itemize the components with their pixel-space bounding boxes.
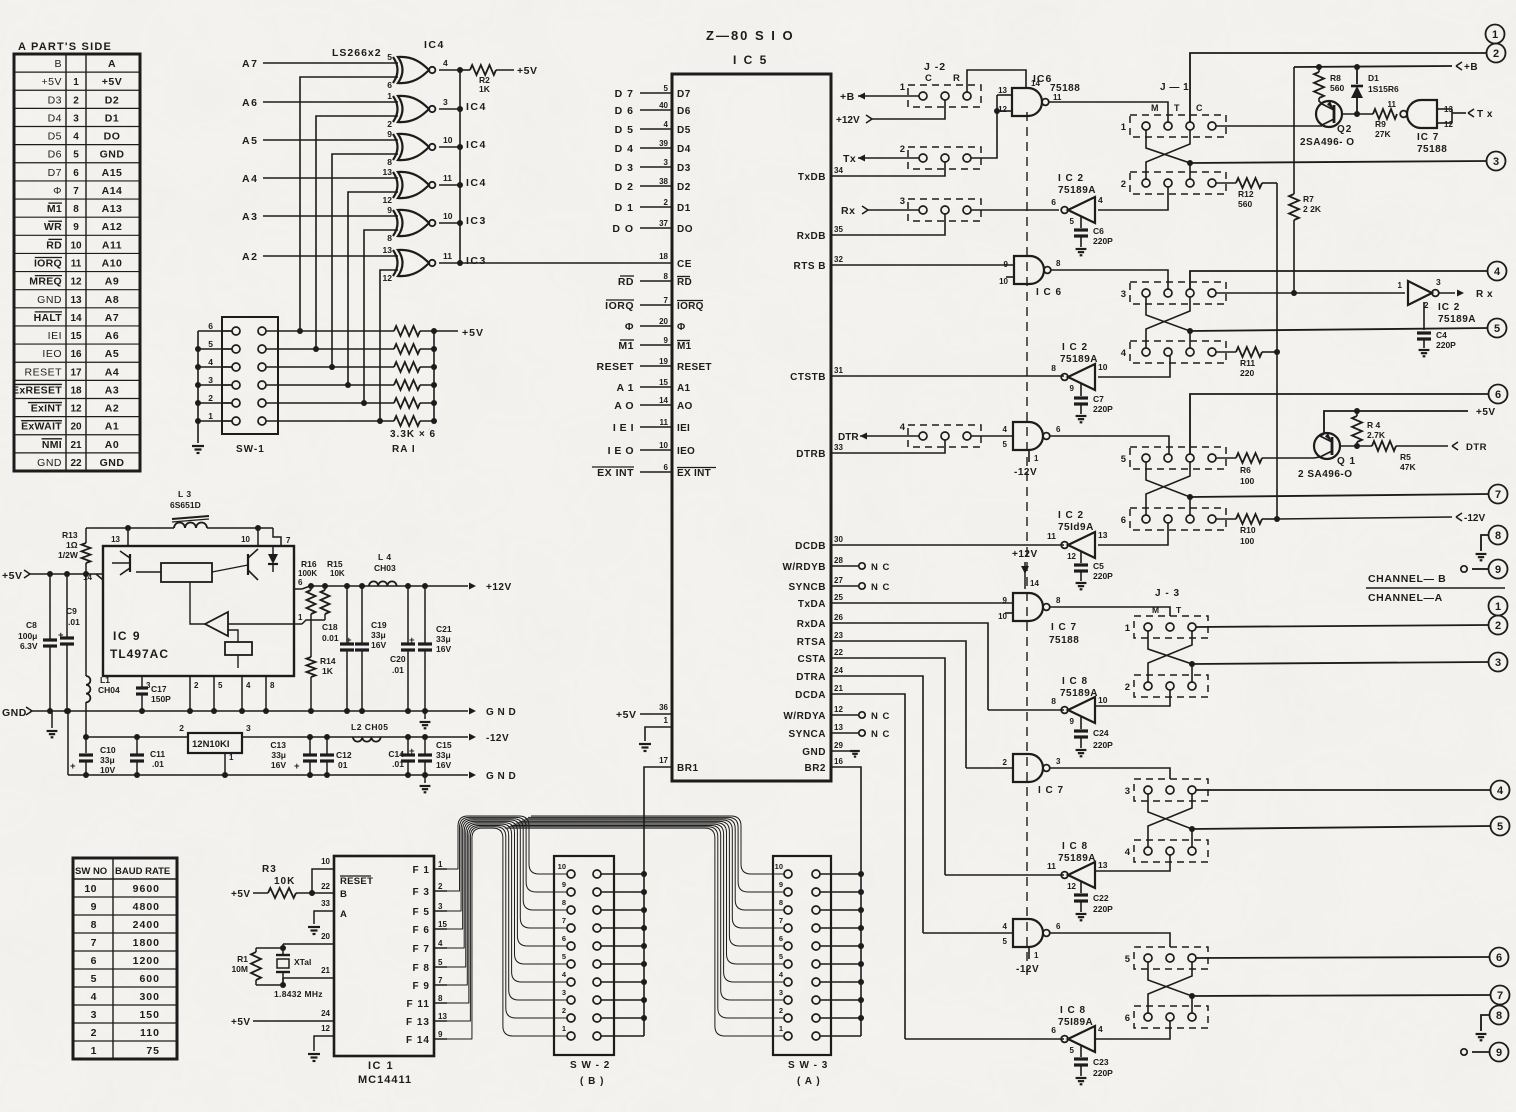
- svg-text:.01: .01: [68, 617, 80, 627]
- wire IC7 pin 1 to -12V: [1028, 947, 1030, 959]
- svg-text:CSTA: CSTA: [798, 654, 826, 665]
- node channel-B ring 1: [1486, 25, 1505, 44]
- svg-text:9: 9: [1495, 564, 1501, 576]
- svg-text:220P: 220P: [1093, 236, 1113, 246]
- svg-text:1: 1: [91, 1045, 97, 1057]
- svg-text:DTRB: DTRB: [796, 449, 826, 460]
- svg-text:CTSTB: CTSTB: [790, 372, 826, 383]
- svg-text:+12V: +12V: [1012, 549, 1038, 560]
- svg-text:D1: D1: [1368, 73, 1379, 83]
- svg-text:7: 7: [286, 536, 291, 545]
- node crossover junction: [1187, 328, 1193, 334]
- wire channel-B 6 to J-1 row5 C: [1190, 394, 1489, 454]
- svg-text:A9: A9: [105, 276, 119, 288]
- capacitor C14 .01: [407, 737, 409, 755]
- svg-text:C4: C4: [1436, 330, 1447, 340]
- wire dashed board boundary: [1026, 112, 1028, 975]
- svg-text:C15: C15: [436, 740, 452, 750]
- svg-text:I C 8: I C 8: [1062, 676, 1088, 687]
- svg-text:10V: 10V: [100, 765, 115, 775]
- svg-text:A15: A15: [102, 167, 123, 179]
- resistor R4 2.7K: [1352, 416, 1362, 442]
- svg-text:W/RDYB: W/RDYB: [782, 562, 826, 573]
- svg-text:D2: D2: [105, 94, 119, 106]
- wire gate output to bus: [439, 262, 460, 264]
- svg-text:A11: A11: [102, 239, 122, 251]
- wire IC8 output to J-3 row4 T: [1095, 855, 1170, 871]
- inductor L4 CH03: [369, 581, 397, 586]
- svg-text:12: 12: [70, 404, 82, 415]
- svg-text:D1: D1: [105, 112, 119, 124]
- svg-text:6: 6: [387, 80, 392, 90]
- svg-text:T: T: [1174, 103, 1180, 113]
- svg-text:D3: D3: [677, 163, 691, 174]
- jumper row 5: [1130, 447, 1226, 469]
- svg-text:A3: A3: [105, 384, 119, 396]
- svg-text:1: 1: [779, 1024, 783, 1033]
- svg-text:D5: D5: [48, 131, 62, 143]
- svg-text:12: 12: [1067, 552, 1076, 561]
- wire gate lower input to RA1 row 5: [364, 230, 398, 403]
- svg-text:A4: A4: [242, 173, 258, 185]
- svg-text:12: 12: [1067, 882, 1076, 891]
- svg-text:10: 10: [321, 857, 330, 866]
- svg-text:5: 5: [1070, 217, 1075, 226]
- svg-text:15: 15: [70, 331, 82, 342]
- svg-text:+5V: +5V: [231, 889, 251, 900]
- svg-text:D 1: D 1: [615, 202, 634, 214]
- svg-text:-12V: -12V: [1464, 513, 1485, 524]
- wire RxDA drop to IC8 output: [988, 709, 1064, 711]
- svg-text:1: 1: [387, 91, 392, 101]
- svg-text:C6: C6: [1093, 226, 1104, 236]
- wire DTRA to gate input: [923, 932, 1013, 934]
- table: SW NO / BAUD RATE: [73, 858, 177, 1059]
- svg-text:MC14411: MC14411: [358, 1074, 412, 1086]
- svg-text:IC3: IC3: [466, 215, 487, 227]
- wire BR2 pin 16 to SW-3 bus: [831, 767, 861, 1036]
- svg-text:D 6: D 6: [615, 105, 634, 117]
- svg-text:1/2W: 1/2W: [58, 550, 79, 560]
- wire gate output to bus: [439, 108, 460, 110]
- svg-text:R16: R16: [301, 559, 317, 569]
- svg-text:36: 36: [659, 703, 668, 712]
- node channel-A ring 2: [1489, 616, 1508, 635]
- svg-text:D 2: D 2: [615, 181, 634, 193]
- svg-text:A: A: [108, 58, 116, 70]
- wire J-2 row4 R to IC6 DTR driver input: [971, 435, 1013, 437]
- wire channel-B 9 stub: [1472, 568, 1488, 570]
- wire jumper crossover: [1148, 962, 1192, 1013]
- IC9 internal resistor block: [161, 563, 212, 582]
- svg-text:DTR: DTR: [1466, 442, 1487, 453]
- svg-text:9: 9: [387, 129, 392, 139]
- capacitor C6 220P: [1080, 217, 1082, 228]
- node channel-B ring 4: [1488, 262, 1507, 281]
- svg-text:10M: 10M: [231, 964, 248, 974]
- wire SW-1 row 3 to RA1: [266, 366, 394, 368]
- svg-text:29: 29: [834, 741, 843, 750]
- svg-text:0.01: 0.01: [322, 633, 339, 643]
- svg-text:RD: RD: [618, 276, 634, 288]
- wire CSTA from IC5 to channel-A circuit: [831, 658, 945, 875]
- svg-text:34: 34: [834, 166, 843, 175]
- svg-text:ExINT: ExINT: [31, 403, 63, 415]
- wire 12N10K1 pin 1 to ground rail: [224, 753, 226, 775]
- svg-text:TxDA: TxDA: [798, 599, 826, 610]
- svg-text:10: 10: [1098, 362, 1108, 372]
- svg-text:100K: 100K: [298, 569, 317, 578]
- svg-text:R14: R14: [320, 656, 336, 666]
- svg-text:G N D: G N D: [486, 707, 516, 718]
- svg-text:9: 9: [779, 880, 783, 889]
- resistor R15 10K: [324, 586, 326, 590]
- wire IC6 inputs 13/12 tied to J-2 row2 R: [997, 94, 1012, 96]
- svg-text:-12V: -12V: [486, 733, 509, 744]
- svg-text:F 9: F 9: [413, 981, 430, 992]
- svg-text:8: 8: [562, 898, 566, 907]
- svg-text:2: 2: [1121, 179, 1126, 190]
- svg-text:I C 7: I C 7: [1051, 622, 1077, 633]
- resistor RA1 element 4: [394, 380, 420, 390]
- svg-text:B: B: [54, 58, 62, 70]
- wire gate output to bus: [439, 146, 460, 148]
- svg-text:2: 2: [779, 1006, 783, 1015]
- wire F output 4 bundle to SW-3: [514, 824, 784, 982]
- svg-text:D 4: D 4: [615, 143, 634, 155]
- capacitor C10 33u 10V: [85, 737, 87, 753]
- wire SW-3 row 4 to BR2 bus: [820, 981, 861, 983]
- NAND gate IC7 RTSA driver: [1013, 754, 1043, 782]
- capacitor C21 33u 16V: [424, 586, 426, 644]
- svg-text:6: 6: [1496, 952, 1502, 964]
- svg-text:13: 13: [1098, 860, 1108, 870]
- svg-text:11: 11: [443, 251, 452, 261]
- svg-text:2: 2: [1003, 758, 1008, 767]
- svg-text:BR1: BR1: [677, 763, 699, 774]
- svg-text:IC4: IC4: [466, 177, 487, 189]
- wire F output 7 bundle to SW-2: [446, 820, 567, 929]
- svg-text:C20: C20: [390, 654, 406, 664]
- IC9 internal comparator: [205, 612, 228, 636]
- wire F output 9 bundle to SW-3: [528, 817, 784, 892]
- wire F output 9 bundle to SW-2: [446, 817, 567, 892]
- svg-text:33μ: 33μ: [436, 750, 451, 760]
- svg-text:10: 10: [999, 277, 1008, 286]
- svg-text:38: 38: [659, 177, 668, 186]
- svg-text:BR2: BR2: [804, 763, 826, 774]
- wire F output 5 bundle to SW-3: [517, 823, 785, 964]
- svg-text:C: C: [1196, 103, 1203, 113]
- svg-text:1800: 1800: [133, 937, 160, 949]
- node channel-B ring 5: [1488, 319, 1507, 338]
- svg-text:220P: 220P: [1093, 404, 1113, 414]
- svg-text:17: 17: [70, 367, 82, 378]
- wire F13 output stub: [434, 1020, 447, 1022]
- svg-text:4: 4: [900, 422, 906, 433]
- wire RA1 +5V bus: [433, 331, 435, 421]
- wire F7 output stub: [434, 947, 447, 949]
- svg-text:RxDB: RxDB: [797, 231, 826, 242]
- wire F output 6 bundle to SW-3: [519, 821, 784, 946]
- svg-text:1K: 1K: [322, 666, 334, 676]
- jumper J-2 row 3: [908, 199, 981, 221]
- svg-text:24: 24: [834, 666, 843, 675]
- svg-text:75188: 75188: [1049, 635, 1079, 646]
- svg-text:4: 4: [1497, 785, 1504, 797]
- svg-text:R11: R11: [1240, 358, 1255, 368]
- wire F output 6 bundle to SW-2: [446, 821, 567, 948]
- svg-text:R x: R x: [1476, 289, 1493, 300]
- svg-text:IC4: IC4: [424, 39, 445, 51]
- svg-text:7: 7: [1495, 489, 1501, 501]
- svg-text:RTSA: RTSA: [797, 637, 826, 648]
- svg-text:G N D: G N D: [486, 771, 516, 782]
- svg-text:+5V: +5V: [1476, 407, 1496, 418]
- wire pin 33 A to ground: [314, 911, 334, 924]
- wire gate output to bus: [439, 69, 460, 71]
- wire F output 3 bundle to SW-2: [446, 825, 567, 1003]
- wire jumper crossover: [1146, 130, 1190, 179]
- svg-text:39: 39: [659, 139, 668, 148]
- svg-text:( B ): ( B ): [580, 1076, 604, 1087]
- node crossover junction: [1189, 826, 1195, 832]
- wire SW-2 row 10 to BR1 bus: [601, 873, 644, 875]
- svg-text:10K: 10K: [274, 876, 295, 887]
- svg-text:10: 10: [659, 441, 668, 450]
- wire J-2 row3 R to IC2 receiver output: [971, 209, 1059, 211]
- svg-text:5: 5: [91, 973, 97, 985]
- svg-text:110: 110: [140, 1027, 160, 1039]
- svg-text:N C: N C: [871, 582, 890, 593]
- svg-text:Q2: Q2: [1337, 124, 1352, 135]
- svg-text:2 2K: 2 2K: [1303, 204, 1322, 214]
- svg-text:4: 4: [91, 991, 97, 1003]
- svg-text:9: 9: [562, 880, 566, 889]
- svg-text:01: 01: [338, 760, 348, 770]
- wire J-2 row1 R to IC6 pin 14: [967, 70, 1026, 92]
- svg-text:F 5: F 5: [413, 907, 430, 918]
- svg-text:10: 10: [443, 135, 453, 145]
- wire SW-2 row 6 to BR1 bus: [601, 945, 644, 947]
- svg-text:40: 40: [659, 101, 668, 110]
- svg-text:14: 14: [70, 313, 82, 324]
- buffer IC8 75189A DCDA receiver: [1068, 1026, 1095, 1052]
- wire jumper crossover: [1148, 631, 1192, 682]
- resistor R10 100: [1216, 518, 1236, 520]
- svg-text:10: 10: [241, 535, 250, 544]
- svg-text:A 1: A 1: [617, 382, 634, 394]
- svg-text:R15: R15: [327, 559, 343, 569]
- svg-text:27: 27: [834, 576, 843, 585]
- svg-text:R10: R10: [1240, 525, 1256, 535]
- svg-text:150: 150: [139, 1009, 160, 1021]
- wire channel-A 3 line: [1192, 662, 1488, 664]
- svg-text:6: 6: [1051, 197, 1056, 207]
- svg-text:+5V: +5V: [42, 76, 62, 88]
- svg-text:75189A: 75189A: [1060, 354, 1098, 365]
- svg-text:8: 8: [1051, 363, 1056, 373]
- svg-text:7: 7: [779, 916, 783, 925]
- wire J-1 row2 T to IC2 receiver output: [1098, 187, 1168, 210]
- svg-text:GND: GND: [100, 149, 125, 161]
- svg-text:1: 1: [1034, 454, 1039, 463]
- svg-text:M1: M1: [618, 340, 634, 352]
- svg-text:A PART'S SIDE: A PART'S SIDE: [18, 41, 112, 53]
- xnor gate IC4 unit 4: [398, 172, 429, 198]
- svg-text:75188: 75188: [1417, 144, 1447, 155]
- svg-text:I C 6: I C 6: [1036, 287, 1062, 298]
- svg-text:GND: GND: [37, 294, 62, 306]
- capacitor C18 0.01: [346, 586, 348, 644]
- svg-text:4: 4: [1003, 922, 1008, 931]
- wire F output 1 bundle to SW-2: [446, 828, 567, 1039]
- svg-text:8: 8: [91, 919, 97, 931]
- svg-text:33μ: 33μ: [371, 630, 386, 640]
- svg-text:IC4: IC4: [466, 139, 487, 151]
- svg-text:N C: N C: [871, 729, 890, 740]
- svg-text:R12: R12: [1238, 189, 1254, 199]
- svg-text:75189A: 75189A: [1438, 314, 1476, 325]
- svg-text:2.7K: 2.7K: [1367, 430, 1386, 440]
- svg-text:75I89A: 75I89A: [1058, 1017, 1093, 1028]
- wire DTRA from IC5 to channel-A circuit: [831, 676, 923, 933]
- svg-text:1: 1: [1121, 122, 1127, 133]
- buffer IC2 75189A DCDB receiver: [1068, 532, 1095, 558]
- svg-text:A5: A5: [242, 135, 258, 147]
- wire IC9 pin 3: [141, 676, 143, 681]
- wire channel-A 5 line: [1192, 826, 1490, 829]
- svg-text:C7: C7: [1093, 394, 1104, 404]
- wire F3 output stub: [434, 890, 447, 892]
- svg-text:33μ: 33μ: [271, 750, 286, 760]
- wire +5V rail: [1324, 411, 1468, 434]
- wire F output 10 bundle to SW-2: [446, 816, 567, 874]
- wire IC5 pin 1 to ground: [645, 727, 672, 741]
- buffer IC8 75189A CTSA receiver: [1068, 862, 1095, 888]
- svg-text:1Ω: 1Ω: [66, 540, 78, 550]
- svg-text:4: 4: [73, 132, 79, 143]
- svg-text:+12V: +12V: [836, 115, 860, 126]
- svg-text:F 1: F 1: [413, 865, 430, 876]
- resistor RA1 element 3: [394, 362, 420, 372]
- svg-text:2: 2: [387, 119, 392, 129]
- svg-text:R3: R3: [262, 864, 277, 875]
- svg-text:25: 25: [834, 593, 843, 602]
- svg-text:1: 1: [208, 411, 213, 421]
- wire CE from IC3 pin 11 to IC5 pin 18: [460, 262, 672, 264]
- svg-text:220P: 220P: [1093, 904, 1113, 914]
- svg-text:A7: A7: [242, 58, 258, 70]
- node channel-A ring 4: [1491, 781, 1510, 800]
- wire -12V input: [1277, 517, 1452, 519]
- svg-text:11: 11: [1047, 531, 1056, 541]
- svg-text:SW-1: SW-1: [236, 444, 265, 455]
- wire SW-2 row 7 to BR1 bus: [601, 927, 644, 929]
- svg-text:20: 20: [659, 317, 668, 326]
- resistor R14 1K: [307, 657, 316, 677]
- svg-text:12: 12: [321, 1024, 330, 1033]
- svg-text:IORQ: IORQ: [605, 300, 634, 312]
- svg-text:M1: M1: [47, 203, 62, 215]
- wire F output 7 bundle to SW-3: [522, 820, 784, 928]
- svg-text:220P: 220P: [1093, 1068, 1113, 1078]
- svg-text:75: 75: [146, 1045, 160, 1057]
- svg-text:16: 16: [70, 349, 82, 360]
- svg-text:C9: C9: [66, 606, 77, 616]
- svg-text:S W - 2: S W - 2: [570, 1060, 610, 1071]
- wire IC9 pin 4: [241, 676, 243, 711]
- svg-text:4: 4: [1121, 348, 1127, 359]
- wire SW-2 row 8 to BR1 bus: [601, 909, 644, 911]
- svg-text:A14: A14: [102, 185, 123, 197]
- svg-text:5: 5: [438, 958, 443, 967]
- svg-text:D 5: D 5: [615, 124, 634, 136]
- resistor R7 2.2K: [1293, 67, 1295, 194]
- svg-text:+B: +B: [1464, 62, 1478, 73]
- svg-text:7: 7: [562, 916, 566, 925]
- svg-text:9: 9: [1496, 1047, 1502, 1059]
- svg-text:6: 6: [298, 578, 303, 587]
- wire IC9 pin 1: [294, 623, 302, 625]
- svg-text:10: 10: [84, 883, 97, 895]
- NAND gate IC6 DTRB driver: [1013, 422, 1043, 450]
- wire +12V rail: [302, 586, 310, 589]
- svg-text:7: 7: [438, 976, 443, 985]
- wire F9 output stub: [434, 984, 447, 986]
- svg-text:8: 8: [1051, 696, 1056, 706]
- wire gate output to bus: [439, 184, 460, 186]
- svg-text:4: 4: [664, 120, 669, 129]
- node crossover junction: [1189, 993, 1195, 999]
- svg-text:C12: C12: [336, 750, 352, 760]
- svg-text:Z—80 S I O: Z—80 S I O: [706, 28, 795, 43]
- svg-text:220P: 220P: [1093, 740, 1113, 750]
- svg-text:W/RDYA: W/RDYA: [783, 711, 826, 722]
- svg-text:C21: C21: [436, 624, 452, 634]
- switch SW-1: [222, 317, 278, 434]
- wire -12V feed bus R12/R11/R10: [1276, 183, 1278, 519]
- svg-text:N C: N C: [871, 711, 890, 722]
- svg-text:220P: 220P: [1436, 340, 1456, 350]
- svg-text:4: 4: [443, 58, 448, 68]
- capacitor C20 .01: [407, 586, 409, 644]
- svg-text:J — 1: J — 1: [1160, 82, 1189, 93]
- svg-text:5: 5: [1497, 821, 1503, 833]
- wire RTSB pin 32 to IC6 input: [831, 264, 1014, 266]
- svg-text:5: 5: [562, 952, 566, 961]
- svg-text:13: 13: [834, 723, 843, 732]
- svg-text:L 4: L 4: [378, 552, 392, 562]
- resistor RA1 element 1: [394, 326, 420, 336]
- wire J-1 row6 T to IC2 receiver #3 output: [1098, 523, 1168, 545]
- jumper J-2 row 4: [908, 425, 981, 447]
- svg-text:1: 1: [229, 753, 234, 762]
- svg-text:AO: AO: [677, 401, 693, 412]
- svg-text:GND: GND: [802, 747, 826, 758]
- wire J-1 row4 T to IC2 receiver #2 output: [1098, 356, 1170, 377]
- IC U: IC1 MC14411 baud rate generator: [334, 856, 434, 1056]
- wire IC7 output to J-3 row5 T: [1050, 933, 1170, 947]
- svg-text:6: 6: [1056, 922, 1061, 931]
- NAND gate IC7 75188 Tx (mirrored): [1407, 100, 1437, 128]
- svg-text:DO: DO: [677, 224, 693, 235]
- svg-text:13: 13: [1098, 530, 1108, 540]
- svg-text:600: 600: [139, 973, 160, 985]
- svg-text:2: 2: [438, 882, 443, 891]
- diode D1 1S15R6: [1356, 67, 1358, 84]
- svg-text:5: 5: [1070, 1046, 1075, 1055]
